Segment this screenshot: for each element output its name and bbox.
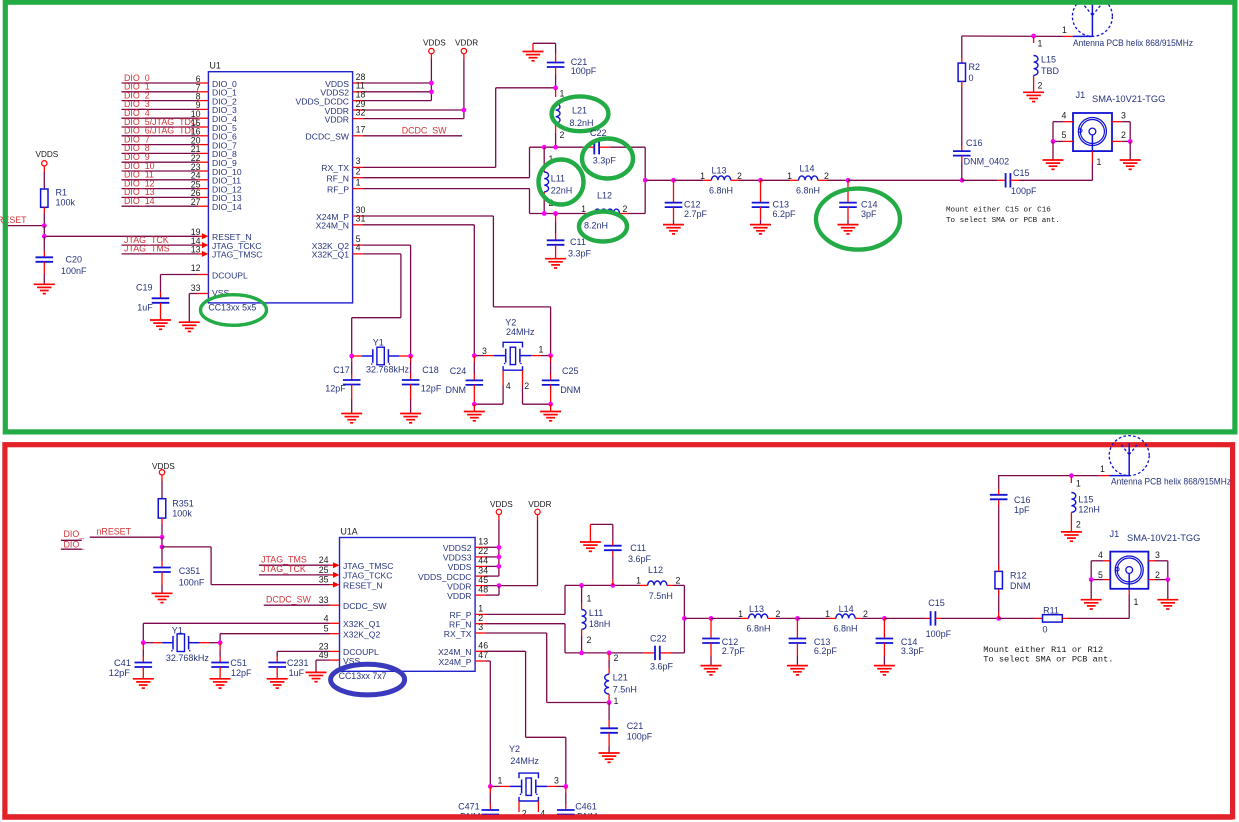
svg-text:2: 2 (623, 204, 628, 214)
wire VDDS to R351 (161, 481, 163, 499)
svg-text:DCDC_SW: DCDC_SW (266, 594, 311, 604)
inductor L13 6.8nH (674, 166, 761, 196)
node Y1 right junction (408, 354, 413, 359)
svg-text:2.7pF: 2.7pF (722, 646, 746, 656)
pin 20 DIO_7 with net label wire (122, 134, 238, 150)
net stub DIO_ lower (61, 540, 85, 550)
wire down to R2 (961, 36, 963, 63)
svg-text:27: 27 (191, 197, 201, 207)
svg-text:DNM: DNM (446, 385, 467, 395)
inductor L12 7.5nH bottom (636, 565, 680, 601)
svg-text:X24M_N: X24M_N (438, 647, 471, 657)
ground under J1 right (1120, 141, 1141, 169)
pin 34 VDDS_DCDC wire (418, 565, 499, 582)
svg-text:8.2nH: 8.2nH (584, 221, 608, 231)
wire match box top edge bottom sch with L12 (565, 581, 684, 585)
svg-text:6.8nH: 6.8nH (834, 624, 858, 634)
pin 6 DIO_0 with net label wire (122, 73, 238, 89)
pin 24 DIO_11 with net label wire (122, 170, 242, 186)
ground under C19 (150, 320, 171, 329)
highlight ellipse CC13xx 7x7 (331, 664, 405, 695)
svg-text:3: 3 (482, 346, 487, 356)
highlight ellipse L11 (539, 160, 584, 205)
svg-text:Y1: Y1 (172, 626, 183, 636)
svg-text:3: 3 (1155, 550, 1160, 560)
svg-text:5: 5 (324, 624, 329, 634)
pin 11 VDDS2 wire (320, 81, 431, 98)
svg-text:C19: C19 (136, 283, 153, 293)
svg-text:100pF: 100pF (627, 731, 653, 741)
ground under C12 (663, 225, 684, 234)
svg-text:6.2pF: 6.2pF (814, 646, 838, 656)
pin 47 X24M_P wire (439, 650, 491, 786)
svg-text:X24M_P: X24M_P (439, 657, 472, 667)
capacitor C22 3.3pF (590, 128, 616, 166)
svg-text:C15: C15 (928, 598, 945, 608)
J1 pin 5 wire bottom (1091, 561, 1110, 580)
J1 pin 2 wire (1112, 122, 1130, 142)
pin 23 DCOUPL wire (277, 641, 379, 657)
crystal Y2 24MHz (474, 317, 550, 404)
ground under C13 bottom (787, 666, 808, 675)
svg-text:JTAG_TMS: JTAG_TMS (261, 554, 307, 564)
capacitor C11 3.3pF (547, 214, 592, 259)
svg-text:1: 1 (1134, 597, 1139, 607)
node box bottom L21 junction bottom (607, 651, 612, 656)
svg-text:3: 3 (478, 622, 483, 632)
svg-text:C231: C231 (287, 658, 309, 668)
inductor L21 7.5nH bottom (605, 653, 637, 706)
pin 22 VDDS3 wire (443, 546, 499, 563)
node Y2 left junction (472, 353, 477, 358)
wire box to C12 node bottom (684, 617, 711, 619)
ground under C11 (545, 259, 566, 268)
svg-text:VDDS3: VDDS3 (443, 553, 472, 563)
svg-text:3.3pF: 3.3pF (593, 156, 617, 166)
wire X32K_Q2 down to Y1 (219, 634, 221, 643)
svg-text:32: 32 (356, 107, 366, 117)
ground above C11 bottom (580, 524, 601, 551)
svg-text:44: 44 (478, 556, 488, 566)
highlight ellipse CC13xx 5x5 (201, 295, 267, 326)
svg-text:U1A: U1A (341, 527, 358, 537)
node VDDS pin28 junction (429, 81, 434, 86)
highlight ellipse L12 value (579, 212, 627, 242)
svg-text:100nF: 100nF (179, 577, 205, 587)
ground under C21 bottom (599, 753, 620, 762)
node L21 RX_TX junction (607, 700, 612, 705)
svg-text:JTAG_TCKC: JTAG_TCKC (343, 571, 393, 581)
svg-text:R1: R1 (56, 188, 68, 198)
power symbol VDDS bottom left (152, 462, 175, 481)
wire VDDS rail down (430, 59, 432, 101)
wire node to node2 bottom (161, 537, 163, 547)
svg-text:VDDS: VDDS (448, 562, 472, 572)
capacitor C19 1uF (136, 283, 169, 321)
svg-text:L14: L14 (800, 164, 815, 174)
svg-text:22nH: 22nH (551, 185, 573, 195)
wire match box top edge with C22 (530, 146, 646, 148)
svg-text:DIO_: DIO_ (64, 540, 86, 550)
ground under C41 (133, 679, 154, 688)
svg-text:C471: C471 (458, 801, 480, 811)
highlight ellipse C14 (816, 189, 900, 250)
wire C14 to C16 node (848, 179, 962, 181)
svg-text:32.768kHz: 32.768kHz (166, 653, 210, 663)
wire match box bottom edge bottom sch with C22 (565, 652, 684, 654)
svg-text:2: 2 (1155, 570, 1160, 580)
node Y2 right junction bottom (563, 784, 568, 789)
J1 pin 3 wire bottom (1148, 550, 1167, 561)
power symbol VDDS top (423, 39, 446, 59)
label CC13xx 7x7 (339, 671, 387, 681)
wire Y2 pin4 to ground node (474, 403, 503, 405)
wire RESET_N to chip (162, 547, 211, 585)
node J1 pin2 junction bottom (1165, 577, 1170, 582)
svg-text:24: 24 (319, 555, 329, 565)
ground under C17 (341, 414, 362, 423)
svg-text:100pF: 100pF (1011, 186, 1037, 196)
svg-text:4: 4 (356, 243, 361, 253)
svg-text:CC13xx 7x7: CC13xx 7x7 (339, 671, 387, 681)
pin 23 DIO_10 with net label wire (122, 161, 242, 177)
node C12 junction bottom (709, 616, 714, 621)
capacitor C13 6.2pF (752, 180, 796, 224)
svg-text:DCDC_SW: DCDC_SW (306, 132, 350, 142)
node L15 junction top (1031, 34, 1036, 39)
svg-text:C11: C11 (630, 543, 646, 553)
svg-text:0: 0 (969, 73, 974, 83)
svg-text:2: 2 (737, 171, 742, 181)
svg-text:J1: J1 (1110, 529, 1120, 539)
node box bottom L11 junction bottom (579, 651, 584, 656)
inductor L11 22nH (544, 147, 572, 213)
capacitor C14 3pF (839, 180, 877, 224)
pin 22 DIO_9 with net label wire (122, 152, 238, 168)
svg-text:2: 2 (1121, 130, 1126, 140)
svg-text:RX_TX: RX_TX (321, 163, 349, 173)
svg-text:8.2nH: 8.2nH (570, 118, 594, 128)
pin 4 X32K_Q1 wire (143, 613, 380, 629)
svg-text:C351: C351 (179, 566, 201, 576)
J1 pin 3 wire (1112, 111, 1130, 122)
highlight ellipse C22 (582, 139, 633, 179)
svg-text:2: 2 (676, 576, 681, 586)
wire VDDS rail down bottom (498, 520, 500, 576)
pin 25 DIO_12 with net label wire (122, 178, 242, 194)
pin 13 JTAG_TMSC wire with net label JTAG_TMS (122, 244, 263, 260)
ground under C25 (540, 404, 561, 421)
svg-text:2: 2 (863, 609, 868, 619)
wire R1 to node (43, 213, 45, 226)
svg-text:DCDC_SW: DCDC_SW (402, 125, 447, 135)
svg-text:R351: R351 (172, 499, 194, 509)
svg-text:3: 3 (554, 776, 559, 786)
svg-text:Mount either R11 or R12: Mount either R11 or R12 (983, 645, 1103, 655)
resistor R2 0 (958, 62, 980, 87)
J1 pin 4 wire bottom (1091, 550, 1110, 561)
svg-text:33: 33 (319, 595, 329, 605)
ground under C14 (838, 225, 859, 234)
node J1 pin5 junction bottom (1089, 577, 1094, 582)
svg-text:12pF: 12pF (231, 668, 252, 678)
node C21 L21 RX_TX junction (553, 85, 558, 90)
wire ground to C21 (533, 43, 556, 62)
svg-text:L13: L13 (712, 166, 727, 176)
net stub DIO_ upper (61, 529, 85, 541)
node L15 junction bottom (1069, 473, 1074, 478)
svg-text:C22: C22 (650, 634, 667, 644)
svg-text:C461: C461 (575, 801, 597, 811)
svg-text:RX_TX: RX_TX (444, 629, 472, 639)
svg-text:L21: L21 (572, 105, 587, 115)
crystal Y2 24MHz bottom (490, 744, 566, 818)
svg-text:L12: L12 (648, 565, 663, 575)
capacitor C351 100nF (153, 566, 205, 593)
node J1 pin2 junction (1128, 139, 1133, 144)
inductor L12 8.2nH (581, 191, 627, 231)
node box bottom C11 junction (553, 211, 558, 216)
svg-text:VDDS: VDDS (490, 500, 513, 509)
pin 26 DIO_13 with net label wire (122, 187, 242, 203)
node box output junction (643, 178, 648, 183)
svg-text:C18: C18 (422, 365, 439, 375)
wire Y2 pin2 to ground node (523, 403, 551, 405)
ground under C13 (750, 225, 771, 234)
pin 24 JTAG_TMSC wire with net label JTAG_TMS (259, 554, 394, 571)
wire box to C12 node (645, 179, 673, 181)
capacitor C231 1uF (268, 651, 308, 678)
wire antenna feed horizontal (962, 25, 1073, 37)
note mount either R11 or R12 (983, 645, 1113, 665)
inductor L11 18nH bottom (582, 585, 611, 653)
capacitor C471 DNM (458, 786, 499, 821)
inductor L13 6.8nH bottom (711, 604, 797, 633)
svg-text:12pF: 12pF (421, 384, 442, 394)
node box top L11 junction bottom (579, 583, 584, 588)
wire X32K_Q1 down to Y1 (142, 623, 144, 642)
node Y2 right junction (548, 353, 553, 358)
svg-text:2: 2 (560, 130, 565, 140)
svg-text:C41: C41 (114, 658, 131, 668)
svg-text:X32K_Q2: X32K_Q2 (343, 630, 380, 640)
svg-text:VDDR: VDDR (528, 500, 551, 509)
svg-text:13: 13 (478, 537, 488, 547)
svg-text:3: 3 (356, 156, 361, 166)
inductor L15 TBD (1034, 36, 1060, 92)
ground under C51 (210, 679, 231, 688)
red frame around bottom schematic (5, 445, 1233, 817)
svg-text:C21: C21 (627, 721, 644, 731)
svg-text:X32K_Q1: X32K_Q1 (343, 619, 380, 629)
svg-text:4: 4 (506, 381, 511, 391)
svg-text:1pF: 1pF (1014, 505, 1030, 515)
svg-text:1: 1 (700, 171, 705, 181)
svg-text:4: 4 (1098, 550, 1103, 560)
svg-text:DNM: DNM (1010, 581, 1031, 591)
capacitor C11 3.6pF bottom (590, 524, 651, 585)
pin 16 DIO_6 with net label wire (122, 126, 238, 142)
svg-text:DCOUPL: DCOUPL (212, 270, 248, 280)
wire match box bottom edge with L12 (530, 213, 646, 215)
wire R351 to node (161, 524, 163, 537)
node C24 ground junction (472, 402, 477, 407)
svg-text:1: 1 (1062, 25, 1067, 35)
pin 25 JTAG_TCKC wire with net label JTAG_TCK (259, 564, 393, 581)
connector J1 SMA-10V21-TGG bottom (1110, 529, 1201, 589)
resistor R1 100k (41, 188, 76, 214)
crystal Y1 32.768kHz (352, 338, 411, 375)
capacitor C15 100pF series bottom (884, 598, 998, 639)
inductor L14 6.8nH (761, 164, 849, 196)
red frame bottom edge overlay (2, 815, 1232, 820)
inductor L14 6.8nH bottom (797, 604, 884, 633)
svg-text:1uF: 1uF (137, 303, 153, 313)
svg-text:1: 1 (560, 89, 565, 99)
svg-text:1: 1 (587, 594, 592, 604)
svg-text:DNM: DNM (560, 385, 581, 395)
wire R11 to J1 pin1 (1129, 589, 1138, 619)
svg-text:2: 2 (614, 653, 619, 663)
capacitor C41 12pF (109, 643, 152, 679)
svg-text:1: 1 (614, 696, 619, 706)
svg-text:49: 49 (319, 650, 329, 660)
pin 12 DCOUPL wire (161, 263, 249, 280)
ground under J1 left bottom (1081, 580, 1102, 609)
ground under C14 bottom (874, 666, 895, 675)
node C13 junction bottom (795, 616, 800, 621)
wire match box right edge (644, 147, 646, 213)
svg-text:1: 1 (539, 345, 544, 355)
svg-text:DIO_14: DIO_14 (124, 196, 155, 206)
power symbol VDDR bottom mid (528, 500, 551, 520)
bottom schematic CC13xx 7x7 (61, 436, 1232, 822)
capacitor C461 DNM (557, 786, 598, 821)
pin 46 X24M_N wire (438, 641, 566, 787)
svg-text:100k: 100k (172, 508, 192, 518)
inductor L21 8.2nH (556, 88, 594, 147)
svg-text:DIO_: DIO_ (64, 529, 86, 539)
node C13 junction (758, 178, 763, 183)
wire VDDR rail down (463, 59, 465, 119)
node C12 junction (671, 178, 676, 183)
svg-text:VDDS: VDDS (36, 150, 59, 159)
capacitor C12 2.7pF (665, 180, 708, 224)
svg-text:47: 47 (478, 650, 488, 660)
capacitor C22 3.6pF bottom (650, 634, 674, 672)
svg-text:1: 1 (1100, 464, 1105, 474)
capacitor C14 3.3pF bottom (876, 618, 925, 665)
node box output junction bottom (682, 616, 687, 621)
net label RESET (0, 215, 44, 226)
svg-text:C17: C17 (333, 365, 350, 375)
pin 48 VDDR wire (447, 584, 499, 601)
svg-text:34: 34 (478, 565, 488, 575)
pin 35 RESET_N wire (211, 575, 383, 591)
svg-text:12nH: 12nH (1078, 504, 1100, 514)
svg-text:C11: C11 (570, 237, 586, 247)
pin 3 RX_TX wire (321, 88, 555, 173)
svg-text:L12: L12 (597, 191, 612, 201)
svg-text:JTAG_TCK: JTAG_TCK (261, 564, 306, 574)
svg-text:DCDC_SW: DCDC_SW (343, 601, 387, 611)
capacitor C24 DNM (446, 356, 484, 405)
top schematic CC13xx 5x5 (0, 0, 1193, 423)
svg-text:3.6pF: 3.6pF (650, 662, 674, 672)
pin 17 DCDC_SW wire with net label DCDC_SW (306, 125, 462, 142)
ground under C12 bottom (701, 666, 722, 675)
svg-text:VDDS: VDDS (423, 39, 446, 48)
svg-text:TBD: TBD (1041, 66, 1060, 76)
resistor R12 DNM (995, 565, 1031, 618)
svg-text:Antenna PCB helix 868/915MHz: Antenna PCB helix 868/915MHz (1073, 38, 1193, 48)
ground under VSS bottom (306, 672, 327, 681)
svg-text:25: 25 (319, 565, 329, 575)
J1 pin 2 wire bottom (1148, 561, 1167, 580)
svg-text:1: 1 (787, 171, 792, 181)
svg-text:Y2: Y2 (505, 317, 516, 327)
svg-text:1: 1 (356, 177, 361, 187)
ground under L15 (1023, 92, 1044, 101)
capacitor C25 DNM (542, 356, 581, 405)
svg-text:RF_N: RF_N (327, 174, 349, 184)
svg-text:100pF: 100pF (571, 66, 597, 76)
pin 2 RF_N wire (327, 147, 530, 183)
svg-text:3.6pF: 3.6pF (628, 554, 652, 564)
node C14 junction (846, 178, 851, 183)
svg-text:To select SMA or PCB ant.: To select SMA or PCB ant. (983, 654, 1113, 664)
pin 33 DCDC_SW wire with net label DCDC_SW (264, 594, 388, 611)
svg-text:2: 2 (587, 635, 592, 645)
node box top C11 junction bottom (610, 583, 615, 588)
svg-text:C14: C14 (861, 200, 878, 210)
node Y1 left junction bottom (141, 640, 146, 645)
svg-text:RF_P: RF_P (327, 184, 349, 194)
ground under J1 right bottom (1157, 580, 1178, 609)
svg-text:R12: R12 (1010, 571, 1027, 581)
pin 8 DIO_2 with net label wire (122, 90, 238, 106)
node RESET junction (42, 223, 47, 228)
pin 1 RF_P wire bottom (450, 585, 565, 620)
svg-text:2: 2 (824, 171, 829, 181)
svg-text:2: 2 (1076, 520, 1081, 530)
svg-text:2: 2 (776, 609, 781, 619)
ground under L15 bottom (1061, 532, 1082, 541)
svg-text:C15: C15 (1013, 168, 1030, 178)
ground under C351 (152, 593, 173, 602)
svg-text:3.3pF: 3.3pF (568, 249, 592, 259)
svg-text:18nH: 18nH (589, 619, 611, 629)
wire antenna feed horizontal bottom (999, 464, 1110, 476)
svg-text:C51: C51 (230, 658, 247, 668)
svg-text:nRESET: nRESET (97, 527, 132, 537)
svg-text:L11: L11 (589, 608, 603, 618)
pin 28 VDDS wire (325, 72, 431, 89)
svg-text:Y2: Y2 (509, 744, 520, 754)
svg-text:46: 46 (478, 641, 488, 651)
node box top L21 junction (553, 145, 558, 150)
capacitor C15 100pF series (962, 168, 1092, 196)
J1 pin 5 wire (1053, 122, 1073, 142)
svg-text:L11: L11 (551, 173, 565, 183)
svg-text:SMA-10V21-TGG: SMA-10V21-TGG (1127, 533, 1200, 543)
node VDDR pin29 junction (462, 108, 467, 113)
svg-text:32.768kHz: 32.768kHz (366, 364, 410, 374)
resistor R11 0 (999, 605, 1129, 634)
svg-text:4: 4 (324, 613, 329, 623)
capacitor C21 100pF bottom (600, 703, 652, 754)
svg-text:0: 0 (1043, 625, 1048, 635)
